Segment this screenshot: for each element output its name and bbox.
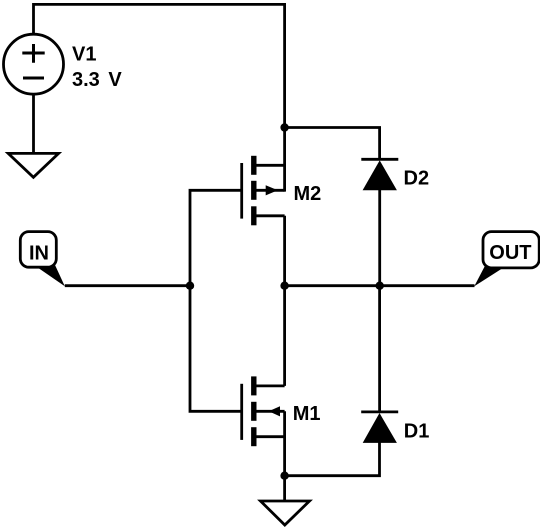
svg-text:V1: V1	[72, 44, 96, 66]
wire M2 source/bulk vertical	[283, 128, 286, 192]
wire output node down to M1 drain	[283, 286, 286, 386]
wire D2 anode to output node	[378, 189, 381, 286]
node ground junction dot	[280, 472, 288, 480]
wire gate bus to M2 and M1 gates	[190, 190, 242, 411]
wire IN flag to gate node	[65, 284, 190, 287]
ground symbol (V1)	[8, 153, 58, 177]
transistor M1 (NMOS)	[242, 376, 285, 446]
voltage source V1	[4, 34, 64, 94]
wire D1 anode to ground node	[285, 442, 380, 476]
svg-text:M1: M1	[293, 403, 321, 425]
svg-text:IN: IN	[29, 242, 49, 264]
svg-text:D1: D1	[404, 420, 430, 442]
ground symbol (output stage)	[261, 501, 310, 525]
wire output node down to D1 cathode	[378, 286, 381, 412]
node output junction dot (diode branch)	[376, 282, 384, 290]
wire V1 minus terminal to ground	[32, 94, 35, 154]
wire ground node to ground symbol	[283, 476, 286, 501]
flag IN	[20, 232, 65, 287]
transistor M2 (PMOS)	[242, 156, 285, 226]
wire M1 source/bulk down to ground node	[283, 411, 286, 475]
svg-text:OUT: OUT	[489, 242, 531, 264]
svg-text:D2: D2	[404, 167, 430, 189]
flag OUT	[474, 232, 539, 287]
node VDD junction dot	[280, 123, 288, 131]
wire VDD rail: V1 plus terminal up, across top, down to node	[34, 4, 285, 128]
svg-text:M2: M2	[294, 183, 322, 205]
diode D2	[361, 159, 398, 190]
wire M2 drain down to output node	[283, 216, 286, 286]
diode D1	[361, 412, 398, 443]
node gate junction dot	[186, 282, 194, 290]
wire output node to OUT flag	[285, 284, 475, 287]
wire VDD node to diode D2 cathode	[285, 128, 380, 161]
svg-text:3.3 V: 3.3 V	[72, 69, 122, 91]
node output junction dot (transistor branch)	[280, 282, 288, 290]
